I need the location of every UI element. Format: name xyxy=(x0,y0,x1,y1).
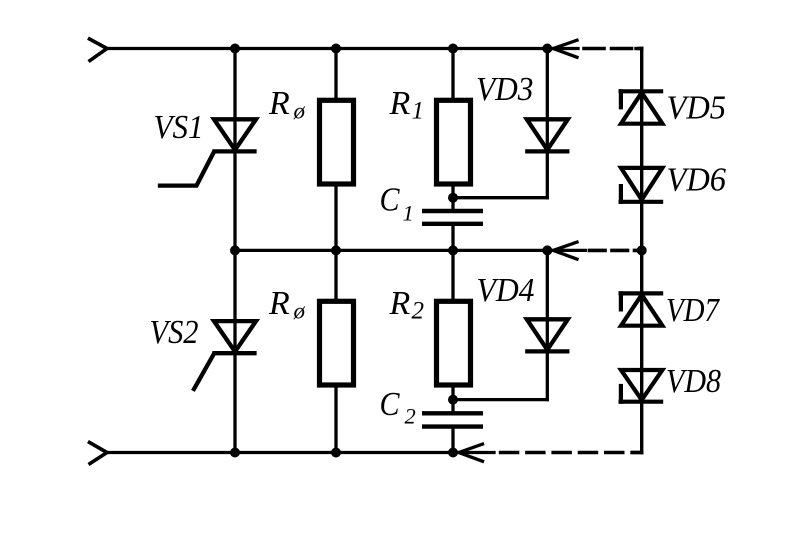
wire bottom bus xyxy=(107,451,453,454)
node bottom VS xyxy=(230,448,240,458)
node middle right column xyxy=(637,245,647,255)
node top R0 xyxy=(331,44,341,54)
node middle VD4 xyxy=(542,245,552,255)
node middle R0 xyxy=(331,245,341,255)
svg-text:C: C xyxy=(380,182,400,219)
diode VD3 xyxy=(527,119,568,151)
wire VS branch vertical xyxy=(233,49,236,453)
capacitor C2 xyxy=(422,413,483,426)
resistor R1 xyxy=(437,100,471,184)
svg-text:VD5: VD5 xyxy=(667,90,727,127)
wire R1 to C1 xyxy=(451,184,454,211)
zener diode VD5 xyxy=(621,91,663,123)
arrowhead bottom xyxy=(459,444,483,461)
wire arrow shaft top xyxy=(553,47,578,50)
svg-text:VS2: VS2 xyxy=(150,314,199,351)
svg-text:VD7: VD7 xyxy=(666,292,721,329)
svg-text:VD4: VD4 xyxy=(477,272,535,309)
svg-text:R: R xyxy=(268,85,290,122)
svg-text:1: 1 xyxy=(412,97,425,124)
wire R1 top stub xyxy=(451,49,454,101)
wire R0 bottom to bottom bus xyxy=(334,385,337,453)
wire dashed bottom xyxy=(501,451,642,455)
node top R1 xyxy=(448,44,458,54)
node B (R2-C2-VD4) xyxy=(448,395,458,405)
wire dashed middle xyxy=(590,249,642,253)
svg-text:R: R xyxy=(268,285,290,322)
svg-text:2: 2 xyxy=(412,298,425,325)
svg-text:VD6: VD6 xyxy=(667,162,727,199)
wire corner bottom-right xyxy=(633,451,642,454)
wire arrow shaft middle xyxy=(553,249,585,252)
wire middle bus xyxy=(235,249,547,252)
resistor R02 (bottom) xyxy=(320,301,354,385)
svg-text:VS1: VS1 xyxy=(154,109,204,146)
wire arrow shaft bottom xyxy=(459,451,494,454)
diode VD4 xyxy=(527,319,568,351)
zener diode VD8 xyxy=(621,370,663,402)
wire C1 to middle bus xyxy=(451,224,454,251)
capacitor C1 xyxy=(422,211,483,224)
node bottom C2 xyxy=(448,448,458,458)
wire node A to VD3 xyxy=(453,196,547,199)
wire R2 to C2 xyxy=(451,385,454,413)
zener diode VD7 xyxy=(621,293,663,325)
arrowhead top xyxy=(553,40,577,57)
wire node B to VD4 xyxy=(453,398,547,401)
thyristor VS2 xyxy=(194,321,256,389)
thyristor VS1 xyxy=(160,119,256,185)
terminal arrow top-left xyxy=(90,39,108,61)
node top VS xyxy=(230,44,240,54)
node bottom R0 xyxy=(331,448,341,458)
wire top bus xyxy=(107,47,547,50)
wire right column vertical xyxy=(640,49,643,453)
wire R2 top stub xyxy=(451,250,454,301)
terminal arrow bottom-left xyxy=(90,443,108,464)
resistor R01 (top) xyxy=(320,100,354,184)
svg-text:VD3: VD3 xyxy=(476,71,534,108)
node A (R1-C1-VD3) xyxy=(448,193,458,203)
wire dashed top xyxy=(584,47,642,51)
wire VD3 branch xyxy=(546,49,549,198)
node middle VS xyxy=(230,245,240,255)
svg-text:R: R xyxy=(389,85,411,122)
svg-text:C: C xyxy=(380,386,400,423)
resistor R2 xyxy=(437,301,471,385)
wire C2 to bottom bus xyxy=(451,427,454,453)
wire VD4 branch xyxy=(546,250,549,399)
svg-text:R: R xyxy=(389,285,411,322)
svg-text:1: 1 xyxy=(403,201,414,226)
node top VD3 xyxy=(542,44,552,54)
wire R0 bottom stub xyxy=(334,250,337,301)
zener diode VD6 xyxy=(621,168,663,202)
svg-text:2: 2 xyxy=(405,404,416,429)
wire R0 top to middle xyxy=(334,184,337,250)
node middle C1 xyxy=(448,245,458,255)
svg-text:ø: ø xyxy=(293,98,306,123)
svg-text:VD8: VD8 xyxy=(666,363,721,400)
wire R0 top stub xyxy=(334,49,337,101)
arrowhead middle xyxy=(553,242,577,259)
svg-text:ø: ø xyxy=(293,299,306,324)
wire corner top-right xyxy=(636,47,642,50)
